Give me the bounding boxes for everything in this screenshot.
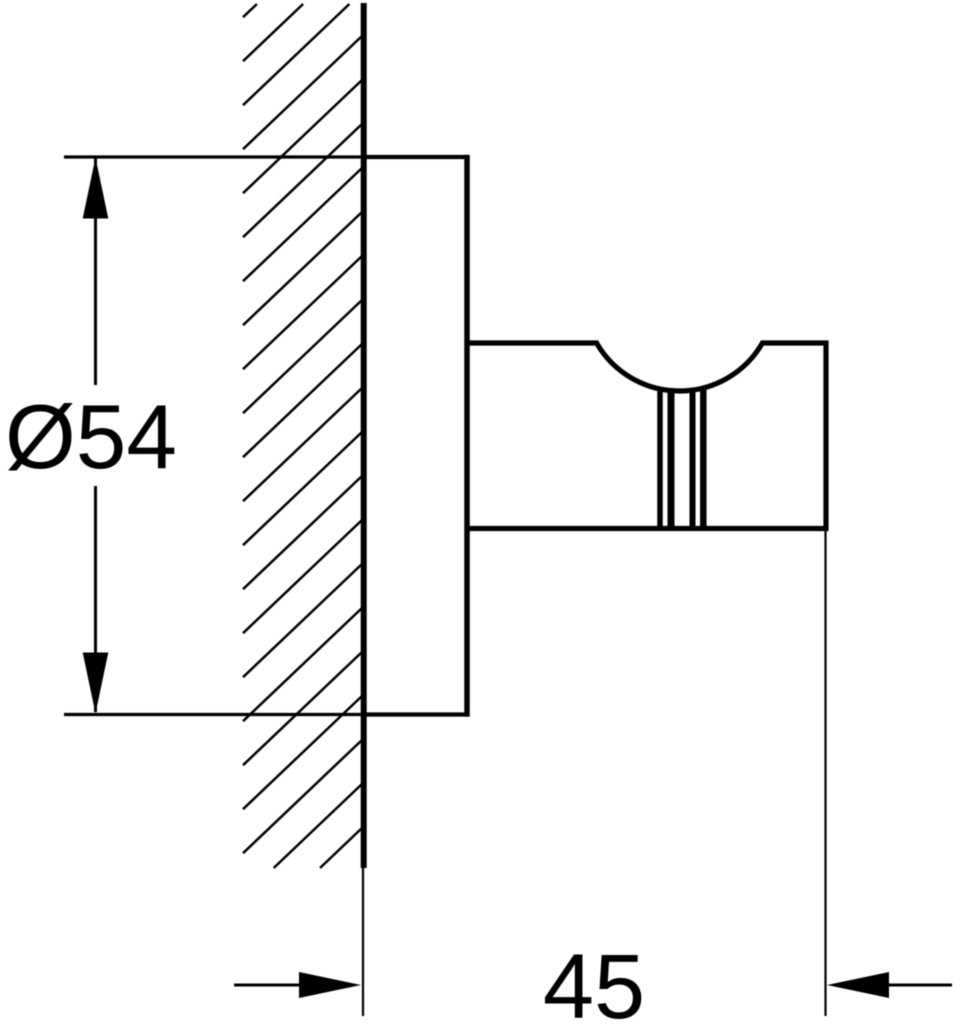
dimension line Ø54 bottom horizontal bbox=[64, 713, 362, 716]
wall section line bbox=[361, 3, 367, 868]
wall extension line for 45 dimension bbox=[362, 868, 364, 1016]
hook right extension line for 45 dimension bbox=[824, 531, 826, 1016]
45 dimension left arrowhead pointing right bbox=[299, 972, 361, 998]
45 dimension left arrow tail bbox=[234, 984, 301, 987]
plate bottom edge bbox=[361, 712, 470, 716]
45 dimension right arrowhead pointing left bbox=[827, 972, 889, 998]
svg-text:45: 45 bbox=[543, 936, 645, 1024]
45 dimension right arrow tail bbox=[887, 984, 952, 987]
arrowhead up at plate top bbox=[83, 158, 109, 219]
dimension line Ø54 top horizontal bbox=[64, 155, 362, 158]
hook slot line 3 bbox=[690, 388, 696, 531]
hook outline bbox=[470, 343, 827, 529]
hook slot line 1 bbox=[657, 387, 663, 531]
Ø54 dimension vertical line upper segment bbox=[94, 158, 97, 385]
hook slot line 2 bbox=[668, 388, 675, 531]
plate right edge bbox=[464, 155, 470, 717]
plate top edge bbox=[361, 155, 470, 159]
svg-text:Ø54: Ø54 bbox=[5, 387, 177, 488]
Ø54 dimension vertical line lower segment bbox=[94, 486, 97, 712]
wall hatching bbox=[243, 4, 362, 868]
arrowhead down at plate bottom bbox=[83, 653, 109, 714]
hook slot line 4 bbox=[700, 387, 707, 531]
